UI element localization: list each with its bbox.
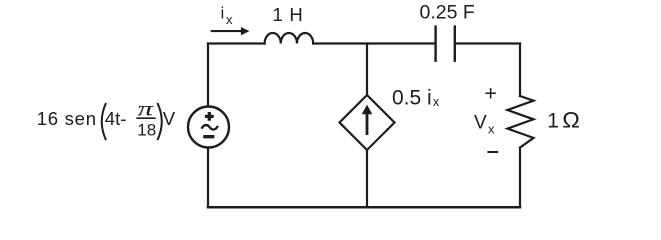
source expression label: 16 sen(4t- pi/18)V [37, 99, 176, 140]
svg-text:x: x [433, 95, 440, 109]
wire top-left horizontal (source top to inductor) [208, 42, 265, 44]
dep source arrow [362, 105, 373, 135]
wire left vertical top (top corner to source) [207, 44, 209, 107]
svg-text:π: π [138, 99, 155, 121]
dependent current source diamond 0.5ix [340, 95, 395, 150]
inductor L1 1H [265, 33, 314, 44]
svg-text:x: x [226, 12, 233, 27]
wire inductor to capacitor (through top node) [313, 42, 435, 44]
wire middle vertical bottom (dep source to bottom) [366, 150, 368, 207]
wire right vertical bottom (resistor to bottom) [519, 148, 521, 208]
capacitor C1 0.25F left plate [434, 27, 436, 61]
svg-text:1: 1 [547, 109, 559, 132]
big left paren [102, 103, 106, 140]
svg-text:0.25 F: 0.25 F [420, 2, 475, 24]
svg-text:4t-: 4t- [105, 108, 127, 129]
svg-text:0.5 i: 0.5 i [392, 87, 432, 110]
svg-text:x: x [488, 122, 495, 137]
svg-text:i: i [221, 4, 225, 23]
wire middle vertical top (top node to dep source) [366, 44, 368, 96]
voltage source minus bar [203, 135, 214, 138]
svg-text:Ω: Ω [562, 107, 580, 132]
resistor R1 1ohm zigzag [508, 96, 534, 148]
svg-text:V: V [474, 113, 487, 134]
wire capacitor to right corner [455, 42, 520, 44]
minus polarity mark [487, 151, 498, 153]
svg-text:V: V [163, 108, 176, 129]
wire left vertical bottom (source to bottom corner) [207, 148, 209, 208]
svg-text:+: + [484, 82, 497, 106]
voltage source sine tilde [202, 125, 218, 129]
fraction bar [136, 117, 155, 119]
big right paren [158, 103, 162, 140]
wire right vertical top (corner to resistor) [519, 44, 521, 97]
wire bottom horizontal [208, 206, 520, 209]
svg-text:1 H: 1 H [273, 4, 304, 25]
ix current arrow [211, 27, 250, 35]
svg-text:16 sen: 16 sen [37, 108, 97, 129]
svg-text:18: 18 [137, 121, 156, 140]
voltage source plus symbol [205, 112, 214, 121]
voltage source VS circle [188, 107, 229, 148]
capacitor C1 0.25F right plate [454, 27, 456, 61]
